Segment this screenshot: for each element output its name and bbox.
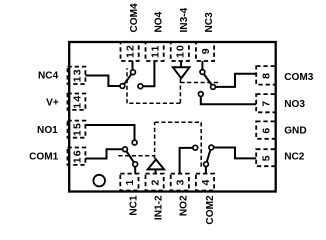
svg-text:NC4: NC4 [38, 70, 59, 81]
switch S1 NO contact [132, 140, 137, 145]
svg-text:COM4: COM4 [129, 3, 140, 33]
svg-text:NC2: NC2 [284, 152, 305, 163]
pin 12 box [121, 42, 139, 61]
svg-text:4: 4 [200, 178, 212, 185]
switch S4 NO contact [138, 84, 143, 89]
dashed control branch to switch3 arm [180, 82, 219, 84]
pin 6 box [256, 121, 275, 138]
dashed control drop to switch2 arm [200, 122, 202, 167]
wire NC1 contact to pin1 [134, 167, 136, 174]
pin1 indicator circle [93, 175, 105, 187]
pin 11 box [146, 42, 164, 61]
dashed control branch to switch1 arm [118, 155, 154, 157]
svg-text:V+: V+ [46, 98, 59, 109]
svg-text:9: 9 [200, 47, 212, 54]
svg-text:NO3: NO3 [284, 99, 305, 110]
svg-text:NO4: NO4 [154, 11, 165, 32]
pin 3 box [171, 174, 189, 191]
switch S2 arm [207, 150, 211, 162]
svg-text:11: 11 [149, 45, 161, 59]
pin 8 box [256, 66, 275, 85]
svg-text:IN1-2: IN1-2 [154, 195, 165, 220]
dashed control run to switch4 [127, 102, 180, 104]
dashed control run to switch2 [155, 121, 202, 123]
pin 16 box [68, 148, 86, 165]
svg-text:7: 7 [261, 100, 273, 107]
pin 7 box [256, 94, 275, 112]
wire pin9 to NC3 contact [201, 61, 203, 70]
svg-text:NO1: NO1 [37, 125, 58, 136]
svg-text:10: 10 [175, 44, 187, 58]
svg-text:IN3-4: IN3-4 [179, 7, 190, 32]
wire pin16 to switch1 pivot [85, 149, 122, 158]
pin 1 box [120, 174, 138, 191]
pin 13 box [68, 67, 86, 84]
svg-text:6: 6 [261, 127, 273, 134]
chip body outline [69, 42, 276, 192]
svg-text:3: 3 [175, 178, 187, 185]
svg-text:NC1: NC1 [128, 195, 139, 216]
wire pin13 to NC4 contact [85, 76, 120, 87]
dashed control line from U2 apex down [179, 79, 181, 104]
svg-text:NO2: NO2 [179, 195, 190, 216]
svg-text:16: 16 [71, 149, 83, 163]
svg-text:2: 2 [149, 178, 161, 185]
wire pin15 to NO1 contact [85, 125, 134, 140]
svg-text:COM1: COM1 [29, 152, 59, 163]
svg-text:5: 5 [261, 154, 273, 161]
wire pin10 to driver U2 [180, 61, 182, 67]
switch S2 NO contact [193, 145, 198, 150]
svg-text:NC3: NC3 [204, 12, 215, 33]
switch S3 NC contact [200, 70, 205, 75]
switch S4 arm [124, 74, 131, 84]
pin 4 box [196, 174, 214, 191]
switch S2 NC contact [209, 145, 214, 150]
switch S1 NC contact [133, 162, 138, 167]
pin 5 box [256, 149, 275, 166]
svg-text:13: 13 [71, 68, 83, 82]
wire NO3 contact to pin7 [201, 96, 256, 104]
svg-text:12: 12 [124, 44, 136, 58]
wire NC2 contact to pin5 [214, 148, 257, 159]
svg-text:14: 14 [71, 95, 83, 109]
svg-text:COM3: COM3 [284, 72, 314, 83]
pin 9 box [196, 42, 214, 61]
wire NO4 contact to pin11 [143, 61, 155, 86]
switch S2 pivot contact [204, 162, 209, 167]
switch S3 NO contact [198, 92, 203, 97]
svg-text:COM2: COM2 [205, 195, 216, 225]
wire switch2 pivot to pin4 [205, 166, 207, 173]
switch S3 pivot contact [211, 85, 216, 90]
svg-text:GND: GND [284, 126, 306, 137]
dashed control rise to switch4 arm [126, 68, 128, 103]
pin 15 box [68, 121, 86, 138]
switch S4 pivot contact [131, 70, 136, 75]
switch S4 NC contact [120, 84, 125, 89]
wire pin12 to switch4 pivot [132, 61, 134, 70]
svg-text:1: 1 [124, 178, 136, 185]
pin 10 box [171, 42, 189, 61]
pin 2 box [146, 174, 164, 191]
driver U2 triangle (IN3-4, points down) [173, 67, 190, 78]
switch S1 arm [127, 151, 134, 162]
dashed control from U1 apex up [154, 122, 156, 159]
wire switch3 pivot to pin8 [215, 74, 256, 87]
svg-text:8: 8 [261, 72, 273, 79]
wire driver U1 to pin2 [155, 169, 157, 173]
svg-text:15: 15 [71, 122, 83, 136]
switch S3 arm [204, 74, 212, 85]
wire NO2 contact to pin3 [180, 148, 194, 174]
driver U1 triangle (IN1-2, points up) [148, 159, 164, 169]
switch S1 pivot contact [123, 147, 128, 152]
pin 14 box [68, 94, 86, 110]
